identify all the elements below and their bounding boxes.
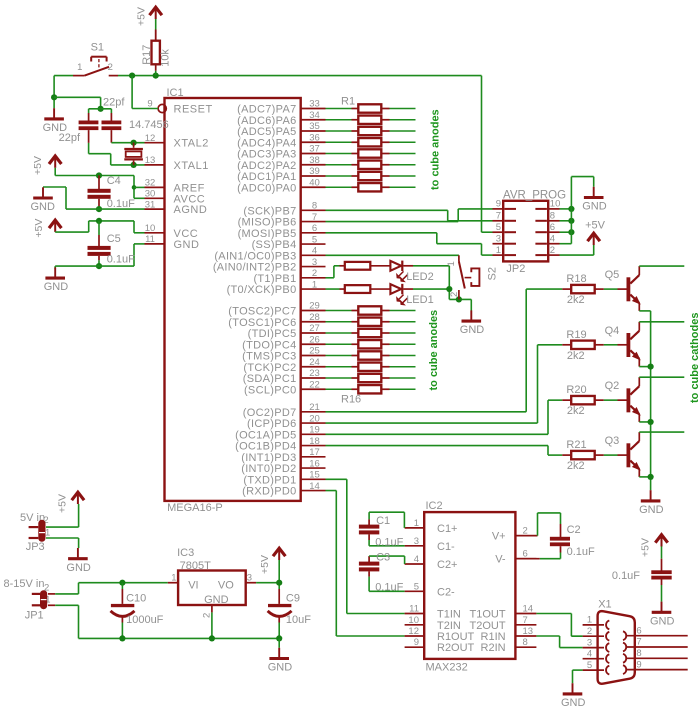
svg-text:0.1uF: 0.1uF [612,570,640,582]
svg-text:3: 3 [414,536,419,547]
svg-text:GND: GND [31,201,56,213]
svg-text:(OC1B)PD4: (OC1B)PD4 [235,441,296,453]
svg-text:JP1: JP1 [25,610,44,622]
svg-text:(TOSC1)PC6: (TOSC1)PC6 [228,317,296,329]
svg-text:R2OUT: R2OUT [437,642,475,654]
svg-text:(SCL)PC0: (SCL)PC0 [244,384,297,396]
svg-text:0.1uF: 0.1uF [107,198,135,210]
svg-text:25: 25 [309,346,320,357]
svg-text:3: 3 [496,233,501,244]
svg-text:14: 14 [523,604,534,615]
svg-text:(ADC2)PA2: (ADC2)PA2 [237,160,296,172]
svg-text:8: 8 [636,648,641,659]
svg-text:(ADC4)PA4: (ADC4)PA4 [237,137,296,149]
svg-text:36: 36 [309,132,320,143]
svg-text:to cube cathodes: to cube cathodes [689,313,700,403]
svg-text:V-: V- [495,554,506,566]
svg-text:(RXD)PD0: (RXD)PD0 [242,486,296,498]
svg-text:0.1uF: 0.1uF [107,254,135,266]
svg-text:17: 17 [309,447,320,458]
svg-text:3: 3 [247,573,252,584]
svg-text:1: 1 [77,62,82,73]
svg-text:+5V: +5V [640,538,652,557]
svg-text:12: 12 [408,626,419,637]
svg-text:(TCK)PC2: (TCK)PC2 [243,362,296,374]
svg-text:2: 2 [108,62,113,73]
svg-text:0.1uF: 0.1uF [375,536,403,548]
svg-text:7: 7 [523,615,528,626]
svg-text:C2: C2 [567,524,581,536]
svg-text:(INT0)PD2: (INT0)PD2 [241,463,296,475]
svg-text:4: 4 [312,246,317,257]
svg-text:(TDO)PC4: (TDO)PC4 [242,339,296,351]
svg-text:C1-: C1- [437,541,455,553]
svg-text:+5V: +5V [57,494,69,513]
svg-text:(T0/XCK)PB0: (T0/XCK)PB0 [227,284,297,296]
svg-text:Q3: Q3 [605,435,620,447]
svg-text:26: 26 [309,334,320,345]
svg-text:(ADC1)PA1: (ADC1)PA1 [237,171,296,183]
svg-text:33: 33 [309,99,320,110]
svg-text:1: 1 [496,245,501,256]
svg-text:14: 14 [309,481,320,492]
svg-text:(ICP)PD6: (ICP)PD6 [247,418,296,430]
svg-text:JP3: JP3 [26,541,45,553]
svg-text:LED2: LED2 [406,271,434,283]
svg-text:38: 38 [309,155,320,166]
svg-text:11: 11 [409,604,419,615]
svg-text:14.7456: 14.7456 [129,119,169,131]
svg-text:+5V: +5V [136,7,148,26]
svg-text:3: 3 [312,257,317,268]
svg-text:(T1)PB1: (T1)PB1 [253,273,296,285]
svg-text:GND: GND [582,201,607,213]
svg-text:5: 5 [587,660,592,671]
svg-text:GND: GND [650,615,675,627]
svg-text:39: 39 [309,166,320,177]
svg-text:(MISO)PB6: (MISO)PB6 [238,217,297,229]
svg-text:(ADC7)PA7: (ADC7)PA7 [237,104,296,116]
svg-text:GND: GND [639,504,664,516]
svg-text:C1+: C1+ [437,523,458,535]
svg-text:8: 8 [550,211,555,222]
svg-text:to cube anodes: to cube anodes [430,109,442,190]
svg-text:AGND: AGND [174,204,208,216]
svg-text:(SDA)PC1: (SDA)PC1 [243,373,297,385]
svg-text:1: 1 [45,528,50,539]
svg-text:Q2: Q2 [605,380,620,392]
svg-text:JP2: JP2 [506,263,525,275]
svg-text:(AIN1/OC0)PB3: (AIN1/OC0)PB3 [214,250,296,262]
svg-text:C3: C3 [376,551,390,563]
svg-text:11: 11 [145,234,155,245]
svg-text:X1: X1 [598,599,611,611]
svg-text:31: 31 [145,199,156,210]
svg-text:2: 2 [550,245,555,256]
svg-text:8: 8 [523,637,528,648]
svg-text:to cube anodes: to cube anodes [428,310,440,391]
svg-text:8-15V in: 8-15V in [4,578,45,590]
svg-text:1: 1 [587,615,592,626]
svg-text:IC2: IC2 [426,500,443,512]
svg-text:R19: R19 [566,329,586,341]
svg-text:C2+: C2+ [437,559,458,571]
svg-text:(OC2)PD7: (OC2)PD7 [243,407,297,419]
svg-text:(SCK)PB7: (SCK)PB7 [243,205,296,217]
svg-text:(TMS)PC3: (TMS)PC3 [242,351,296,363]
svg-text:1: 1 [171,573,176,584]
svg-text:32: 32 [145,178,156,189]
svg-text:1: 1 [446,261,457,266]
svg-text:S2: S2 [487,267,499,280]
svg-text:C4: C4 [107,175,121,187]
svg-text:GND: GND [44,281,68,293]
svg-text:22pf: 22pf [103,97,125,109]
svg-text:1: 1 [312,279,317,290]
svg-text:10: 10 [550,199,561,210]
svg-text:4: 4 [414,554,419,565]
svg-text:VI: VI [188,579,198,591]
svg-text:8: 8 [312,201,317,212]
svg-text:GND: GND [268,662,293,674]
svg-text:T1OUT: T1OUT [470,609,506,621]
svg-text:6: 6 [550,222,555,233]
svg-text:GND: GND [66,562,91,574]
svg-text:+5V: +5V [585,219,606,231]
svg-text:34: 34 [309,110,320,121]
svg-text:(TDI)PC5: (TDI)PC5 [248,328,297,340]
svg-text:R1: R1 [341,96,355,108]
svg-text:1000uF: 1000uF [126,614,164,626]
svg-text:10: 10 [408,615,419,626]
svg-text:40: 40 [309,177,320,188]
svg-text:29: 29 [309,301,320,312]
svg-text:(OC1A)PD5: (OC1A)PD5 [235,429,296,441]
svg-text:+5V: +5V [259,555,271,574]
svg-text:20: 20 [309,413,320,424]
svg-text:5: 5 [312,234,317,245]
svg-text:R17: R17 [141,45,153,65]
svg-text:16: 16 [309,458,320,469]
svg-text:3: 3 [587,637,592,648]
svg-text:7805T: 7805T [180,560,211,572]
svg-text:0.1uF: 0.1uF [567,546,595,558]
svg-text:GND: GND [204,594,229,606]
svg-text:(ADC3)PA3: (ADC3)PA3 [237,149,296,161]
svg-text:10uF: 10uF [286,614,311,626]
svg-text:6: 6 [636,625,641,636]
svg-text:MAX232: MAX232 [426,662,468,674]
svg-text:13: 13 [523,626,534,637]
svg-text:13: 13 [145,155,156,166]
svg-text:0.1uF: 0.1uF [375,582,403,594]
svg-text:37: 37 [309,144,320,155]
svg-text:IC3: IC3 [177,547,194,559]
svg-text:9: 9 [496,199,501,210]
svg-text:VO: VO [218,579,234,591]
svg-text:T2IN: T2IN [437,620,461,632]
svg-text:(ADC6)PA6: (ADC6)PA6 [237,115,296,127]
svg-text:+5V: +5V [33,219,45,238]
svg-text:4: 4 [587,648,592,659]
svg-text:2k2: 2k2 [567,294,585,306]
svg-text:R1IN: R1IN [481,631,506,643]
svg-text:7: 7 [496,211,501,222]
svg-text:GND: GND [561,697,586,707]
svg-text:19: 19 [309,425,320,436]
svg-text:24: 24 [309,357,320,368]
svg-text:(SS)PB4: (SS)PB4 [252,239,297,251]
svg-text:2: 2 [587,626,592,637]
svg-text:9: 9 [636,659,641,670]
svg-text:2k2: 2k2 [567,350,585,362]
svg-text:22pf: 22pf [59,132,81,144]
svg-text:T2OUT: T2OUT [470,620,506,632]
svg-text:9: 9 [414,637,419,648]
svg-text:(MOSI)PB5: (MOSI)PB5 [238,228,297,240]
svg-text:2k2: 2k2 [567,460,585,472]
svg-text:21: 21 [309,402,320,413]
svg-text:R1OUT: R1OUT [437,631,475,643]
svg-text:10: 10 [145,223,156,234]
svg-text:MEGA16-P: MEGA16-P [167,502,223,514]
svg-text:2: 2 [312,268,317,279]
svg-text:2k2: 2k2 [567,405,585,417]
svg-text:28: 28 [309,312,320,323]
svg-text:R16: R16 [341,394,361,406]
svg-text:4: 4 [550,233,555,244]
svg-text:+5V: +5V [32,156,44,175]
svg-text:RESET: RESET [174,104,213,116]
svg-text:23: 23 [309,368,320,379]
svg-text:(TXD)PD1: (TXD)PD1 [243,474,296,486]
svg-text:LED1: LED1 [406,294,434,306]
svg-text:5: 5 [414,581,419,592]
svg-text:(ADC5)PA5: (ADC5)PA5 [237,126,296,138]
svg-text:6: 6 [312,223,317,234]
svg-text:C1: C1 [376,515,390,527]
svg-text:C10: C10 [126,593,146,605]
svg-text:10k: 10k [159,49,171,67]
svg-text:R2IN: R2IN [481,642,506,654]
svg-text:30: 30 [145,189,156,200]
svg-text:35: 35 [309,121,320,132]
svg-text:T1IN: T1IN [437,609,461,621]
svg-text:7: 7 [312,212,317,223]
svg-text:Q5: Q5 [605,269,620,281]
svg-text:22: 22 [309,379,320,390]
svg-text:C2-: C2- [437,586,455,598]
svg-text:(INT1)PD3: (INT1)PD3 [241,452,296,464]
svg-text:V+: V+ [492,531,506,543]
svg-text:GND: GND [460,324,485,336]
svg-text:S1: S1 [91,42,104,54]
svg-text:XTAL2: XTAL2 [174,138,209,150]
svg-text:2: 2 [202,613,213,618]
svg-text:12: 12 [145,133,156,144]
svg-text:R21: R21 [566,439,586,451]
svg-text:XTAL1: XTAL1 [174,160,209,172]
svg-text:5: 5 [496,222,501,233]
svg-text:R18: R18 [566,273,586,285]
svg-text:(ADC0)PA0: (ADC0)PA0 [237,182,296,194]
svg-text:GND: GND [174,239,200,251]
svg-text:C9: C9 [286,593,300,605]
svg-text:(TOSC2)PC7: (TOSC2)PC7 [228,306,296,318]
svg-text:18: 18 [309,436,320,447]
svg-text:IC1: IC1 [167,87,184,99]
svg-text:R20: R20 [566,384,586,396]
svg-text:1: 1 [414,518,419,529]
svg-text:(AIN0/INT2)PB2: (AIN0/INT2)PB2 [213,262,297,274]
svg-text:7: 7 [636,637,641,648]
svg-text:C5: C5 [107,233,121,245]
svg-text:27: 27 [309,323,320,334]
svg-text:Q4: Q4 [605,325,620,337]
svg-text:15: 15 [309,470,320,481]
svg-text:2: 2 [449,292,460,297]
